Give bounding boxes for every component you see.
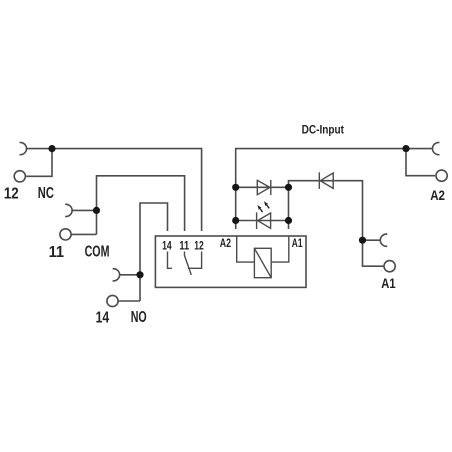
svg-text:A2: A2 [220,236,231,250]
node left rail lower [232,217,239,224]
wire A2 drop to socket [406,149,435,176]
wire COM to socket 11 [71,233,96,235]
relay module box K1 [155,236,306,287]
node A2 junction [402,145,409,152]
terminal plug 14 (NO) [113,269,120,281]
terminal socket A2 [436,170,447,181]
wire right rail to series diode and down to A1 [289,181,363,241]
svg-text:14: 14 [162,239,172,253]
svg-text:DC-Input: DC-Input [302,122,344,136]
terminal socket 11 (COM) [60,229,71,240]
diode V3 (series, points left) [319,172,333,189]
terminal plug A2 [432,142,439,154]
node left rail upper [232,184,239,191]
LED arrow 2 [264,201,269,208]
svg-text:A1: A1 [381,276,396,291]
diode V1 (reverse-polarity, top row) [257,180,271,195]
contact stub 14 (in box) [168,252,172,269]
contact stub 12 (in box) [188,252,202,269]
svg-text:COM: COM [85,243,110,260]
wire A1 drop to socket [363,240,384,266]
terminal socket A1 [384,261,395,272]
svg-text:NO: NO [131,309,147,326]
svg-text:A2: A2 [430,188,445,203]
LED arrow 1 [257,205,262,212]
wire NO plug to junction [120,274,140,276]
wire NC top run to relay pin 12 [27,149,202,231]
terminal plug A1 [380,234,387,246]
wire NC down to socket 12 [26,149,52,177]
wire A1 junction to plug [363,239,381,241]
wire COM plug to junction [72,209,96,211]
svg-text:NC: NC [38,185,54,202]
wire LED row [236,220,289,222]
LED V2 (status LED, points left) [257,212,271,229]
wire top diode row [236,186,289,188]
node right rail upper [285,184,292,191]
wire NO to socket 14 [118,300,140,302]
terminal socket 12 (NC) [14,171,25,182]
node right rail lower [285,217,292,224]
svg-text:12: 12 [4,186,19,203]
relay coil (in box) [254,248,271,277]
node COM junction [93,207,100,214]
wire DC-input top rail [236,149,433,229]
svg-text:11: 11 [179,239,189,253]
coil pin A1 (in box) [271,236,289,262]
svg-text:A1: A1 [292,236,303,250]
svg-text:11: 11 [49,244,65,261]
svg-text:14: 14 [96,310,110,327]
terminal socket 14 (NO) [107,295,118,306]
node NO junction [136,271,143,278]
coil pin A2 (in box) [237,236,255,262]
svg-text:12: 12 [194,239,204,253]
node NC junction [48,145,55,152]
wire NO riser to relay pin 14 [140,203,168,301]
contact blade 11 (in box) [185,252,192,276]
terminal plug 11 (COM) [65,204,72,216]
terminal plug 12 (NC) [20,142,27,154]
node A1 junction [359,237,366,244]
wire COM riser to relay pin 11 [97,176,185,235]
